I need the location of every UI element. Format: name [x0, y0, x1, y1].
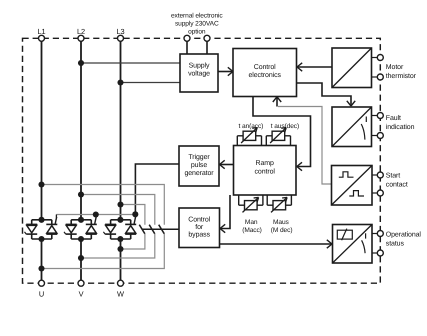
potentiometer Maus (M dec)	[267, 195, 291, 212]
node pair2 top	[78, 217, 84, 223]
junction dot W bypass	[117, 246, 123, 252]
wire external supply stub 1	[186, 41, 188, 54]
label operational status	[386, 230, 422, 247]
svg-text:Operational: Operational	[386, 230, 422, 238]
ramp control box	[234, 146, 297, 196]
node pair1 top	[38, 217, 44, 223]
isolation block motor thermistor	[332, 48, 372, 88]
svg-text:voltage: voltage	[188, 70, 210, 78]
junction dot L2 bypass	[78, 191, 84, 197]
label fault indication	[386, 114, 415, 131]
wire fault indication stubs	[372, 116, 378, 136]
svg-text:Trigger: Trigger	[188, 153, 210, 161]
terminal L2	[78, 35, 84, 41]
svg-text:Control: Control	[254, 63, 276, 71]
wire trigger gate bus	[56, 215, 135, 218]
thyristor pair V3 phase L3	[103, 217, 136, 239]
wire phase L1 vertical	[41, 41, 43, 280]
wire control electronics to ramp control	[253, 97, 311, 171]
potentiometer Man (Macc)	[239, 195, 263, 212]
junction dot gate bus pair2	[93, 211, 99, 217]
terminal external supply b	[204, 35, 210, 41]
label t an(acc)	[239, 123, 264, 130]
wire L3 tap to supply voltage	[121, 82, 181, 84]
svg-text:Man: Man	[245, 219, 258, 226]
label L1	[37, 27, 45, 36]
control electronics box U-CE	[233, 49, 297, 97]
wire bypass contact K3 to U	[42, 234, 165, 269]
wire bypass contact K1 to W	[121, 234, 145, 249]
wire phase L2 vertical	[80, 41, 82, 280]
junction dot L3 bypass	[117, 201, 123, 207]
terminal L3	[118, 35, 124, 41]
label t aus(dec)	[271, 123, 299, 130]
supply voltage box	[180, 54, 218, 92]
wire control for bypass to operational status	[220, 240, 333, 248]
svg-text:Fault: Fault	[386, 114, 401, 122]
wire start contact to control electronics	[273, 97, 332, 184]
terminal operational status a	[377, 231, 383, 237]
node pair3 bottom	[117, 236, 123, 242]
isolation block operational status	[333, 225, 373, 264]
wire operational status stubs	[372, 234, 377, 254]
potentiometer t aus(dec)	[266, 128, 290, 146]
junction dot V bypass	[78, 255, 84, 261]
svg-text:indication: indication	[386, 123, 415, 131]
junction dot L1 bypass	[38, 181, 44, 187]
svg-text:Ramp: Ramp	[256, 160, 274, 167]
terminal W	[118, 280, 124, 286]
label U	[39, 290, 44, 299]
svg-text:external electronic: external electronic	[171, 13, 223, 20]
svg-text:status: status	[386, 240, 405, 247]
svg-text:generator: generator	[184, 170, 214, 177]
wire motor thermistor to control electronics	[297, 63, 332, 71]
svg-text:(Macc): (Macc)	[242, 227, 262, 234]
svg-text:t aus(dec): t aus(dec)	[271, 123, 299, 130]
svg-text:U: U	[39, 290, 44, 299]
label external electronic supply 230VAC option	[171, 13, 223, 36]
wire ramp control to control for bypass	[220, 195, 230, 233]
svg-text:L3: L3	[116, 27, 124, 36]
terminal motor thermistor b	[377, 74, 383, 80]
label Maus (M dec)	[271, 219, 293, 234]
label start contact	[386, 172, 408, 188]
wire control electronics to fault indication	[297, 83, 356, 106]
terminal motor thermistor a	[377, 55, 383, 61]
wire supply voltage to control electronics	[218, 67, 233, 75]
thyristor pair V2 phase L2	[64, 217, 97, 239]
bypass contact K1 blade	[139, 225, 145, 234]
junction dot L3 supply tap	[117, 79, 123, 85]
terminal fault indication a	[377, 113, 383, 119]
label L2	[77, 27, 85, 36]
label Man (Macc)	[242, 219, 262, 234]
junction dot gate bus pair3	[132, 211, 138, 217]
svg-text:W: W	[117, 290, 124, 299]
terminal start contact a	[377, 172, 383, 178]
terminal U	[39, 280, 45, 286]
terminal operational status b	[377, 250, 383, 256]
wire ramp control to trigger pulse generator	[220, 160, 234, 168]
svg-text:Motor: Motor	[386, 64, 404, 71]
node pair1 bottom	[38, 236, 44, 242]
terminal V	[78, 280, 84, 286]
bypass contact K2 blade	[149, 225, 155, 234]
wire start contact stubs	[372, 175, 377, 193]
svg-text:Start: Start	[386, 172, 400, 179]
potentiometer t an(acc)	[237, 128, 261, 146]
label W	[117, 290, 124, 299]
wire L2 to bypass contact K2	[81, 195, 155, 225]
terminal L1	[39, 35, 45, 41]
svg-text:V: V	[79, 290, 84, 299]
label L3	[116, 27, 124, 36]
junction dot L2 supply tap	[78, 60, 84, 66]
svg-text:contact: contact	[386, 181, 408, 188]
junction dot U bypass	[38, 265, 44, 271]
terminal external supply a	[184, 35, 190, 41]
bypass linkage wire to control for bypass	[142, 228, 179, 230]
label V	[79, 290, 84, 299]
svg-text:thermistor: thermistor	[386, 72, 417, 80]
svg-text:L1: L1	[37, 27, 45, 36]
label motor thermistor	[386, 64, 417, 80]
wire L1 to bypass contact K3	[42, 185, 165, 225]
svg-text:option: option	[188, 29, 206, 36]
svg-text:(M dec): (M dec)	[271, 227, 293, 234]
wire phase L3 vertical	[120, 41, 122, 280]
thyristor pair V1 phase L1	[25, 217, 58, 239]
svg-text:Control: Control	[188, 216, 210, 224]
wire external supply stub 2	[206, 41, 208, 54]
svg-text:supply 230VAC: supply 230VAC	[175, 21, 219, 28]
svg-text:bypass: bypass	[188, 231, 210, 239]
wire bypass contact K2 to V	[81, 234, 155, 258]
node pair3 top	[117, 217, 123, 223]
terminal fault indication b	[377, 133, 383, 139]
dashed enclosure border	[23, 38, 381, 283]
svg-text:L2: L2	[77, 27, 85, 36]
svg-text:for: for	[195, 223, 204, 231]
bypass contact K3 blade	[159, 225, 165, 234]
control for bypass box	[179, 208, 220, 248]
svg-text:electronics: electronics	[249, 71, 282, 79]
wire L3 to bypass contact K1	[121, 205, 145, 225]
wire trigger pulse generator to gate bus	[135, 164, 179, 213]
wire L2 tap to supply voltage	[81, 62, 180, 64]
terminal start contact b	[377, 190, 383, 196]
wire motor thermistor stubs	[372, 58, 378, 78]
node pair2 bottom	[78, 236, 84, 242]
svg-text:Supply: Supply	[189, 62, 210, 70]
svg-text:t an(acc): t an(acc)	[239, 123, 264, 130]
isolation block fault indication	[332, 107, 372, 147]
isolation block start contact	[332, 166, 373, 206]
svg-text:pulse: pulse	[191, 161, 207, 169]
trigger pulse generator box	[179, 146, 219, 186]
svg-text:Maus: Maus	[273, 219, 290, 226]
svg-text:control: control	[255, 168, 276, 176]
